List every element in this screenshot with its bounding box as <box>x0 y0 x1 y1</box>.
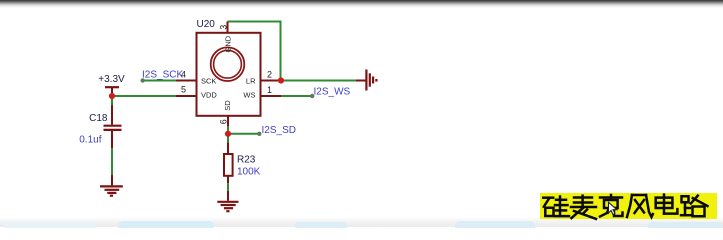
capacitor C18 <box>104 105 122 148</box>
wire +3.3V to pin 5 VDD <box>112 95 176 97</box>
wire net I2S_SCK to pin 4 <box>143 80 177 82</box>
junction node +3.3V/C18 <box>109 93 115 99</box>
bottom strip blob 5 <box>648 222 723 228</box>
wire junction to R23 <box>227 134 229 143</box>
ground symbol left <box>100 175 123 196</box>
top window shadow bar <box>0 0 723 8</box>
wire end dot I2S_WS <box>310 94 314 98</box>
hanzi 路 <box>681 196 708 217</box>
mouse cursor <box>609 202 617 214</box>
wire C18 to ground <box>111 148 113 175</box>
mic port circle <box>211 47 245 81</box>
bottom desktop strip <box>0 217 723 227</box>
wire pin 1 to I2S_WS <box>281 95 312 97</box>
bottom strip blob 2 <box>118 221 214 228</box>
pin 4 SCK <box>176 80 197 82</box>
hanzi 风 <box>627 195 653 217</box>
hanzi 麦 <box>571 196 596 219</box>
pin number 3 <box>218 25 228 30</box>
wire R23 to ground <box>227 183 229 191</box>
bottom strip blob 1 <box>4 222 96 228</box>
power port +3.3V <box>98 74 125 96</box>
junction node SD <box>225 131 231 137</box>
wire end dot I2S_SD <box>257 132 261 136</box>
pin 5 VDD <box>176 95 197 97</box>
pin 2 LR <box>261 80 282 82</box>
wire end dot I2S_SCK <box>141 78 145 82</box>
bottom strip blob 4 <box>455 221 535 228</box>
pin number 6 <box>218 119 228 124</box>
wire pin 6 to junction <box>227 126 229 134</box>
bottom strip blob 3 <box>295 222 347 228</box>
wire pin 3 loop to pin 2 <box>228 22 281 81</box>
junction node pin2 <box>278 77 284 83</box>
wire junction to C18 <box>111 96 113 105</box>
hanzi 硅 <box>543 197 569 217</box>
wire pin 2 to earth ground <box>281 80 356 82</box>
wire junction to I2S_SD <box>228 133 259 135</box>
pin 3 <box>227 22 229 34</box>
hanzi 电 <box>656 195 678 214</box>
pin 6 SD <box>227 116 229 126</box>
pin 1 WS <box>261 95 282 97</box>
hanzi 克 <box>600 195 623 217</box>
resistor R23 <box>224 142 233 183</box>
ground symbol bottom <box>217 191 238 211</box>
earth ground right <box>356 70 376 91</box>
title block yellow <box>540 193 717 219</box>
pin name GND <box>224 35 233 52</box>
pin name SD <box>223 100 232 111</box>
IC U20 body <box>197 33 261 116</box>
